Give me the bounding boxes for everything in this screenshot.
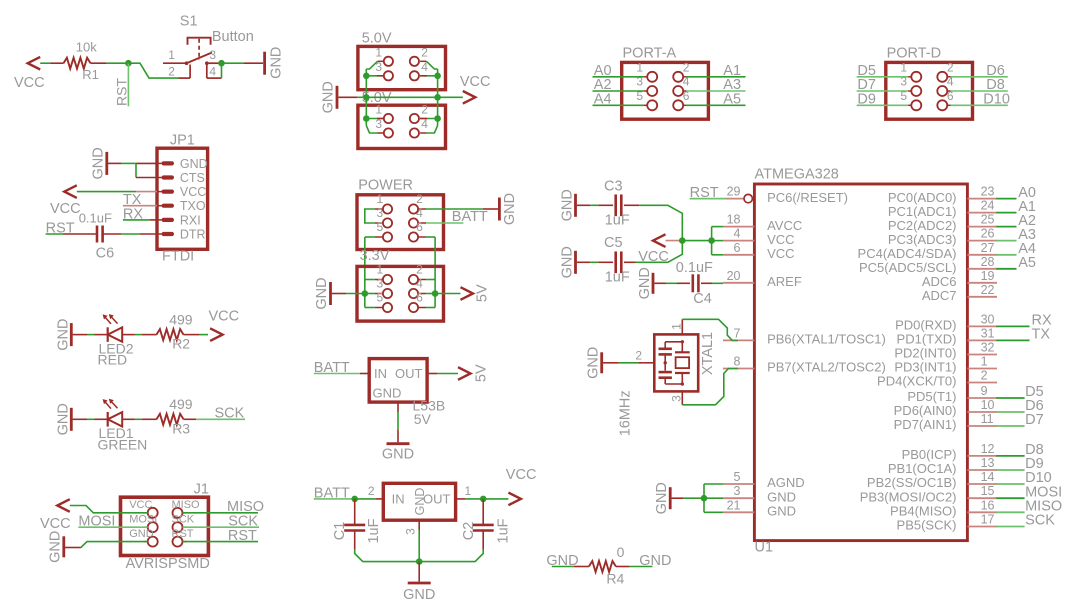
svg-text:7: 7 bbox=[734, 326, 741, 340]
svg-text:PC5(ADC5/SCL): PC5(ADC5/SCL) bbox=[859, 260, 957, 275]
wires lower 5.0V right bbox=[437, 97, 439, 125]
svg-text:30: 30 bbox=[981, 312, 995, 326]
svg-text:2: 2 bbox=[981, 369, 988, 383]
PORT-D pins row 1 bbox=[911, 72, 921, 82]
wire bus to VCC bbox=[438, 96, 463, 98]
svg-text:PB4(MISO): PB4(MISO) bbox=[890, 504, 956, 519]
svg-text:PORT-A: PORT-A bbox=[623, 46, 677, 62]
svg-text:0: 0 bbox=[617, 544, 625, 560]
svg-text:GND: GND bbox=[382, 447, 414, 463]
power VCC arrow (JP1) bbox=[64, 185, 77, 198]
svg-text:ADC7: ADC7 bbox=[922, 288, 957, 303]
wire GND to LED2 bbox=[73, 334, 88, 336]
ground GND (top-left) bbox=[263, 52, 266, 75]
svg-text:D9: D9 bbox=[857, 92, 876, 108]
XTAL crystal element bbox=[681, 342, 683, 353]
svg-text:GND: GND bbox=[321, 81, 337, 113]
header PORT-A outline bbox=[622, 62, 709, 119]
svg-text:PD6(AIN0): PD6(AIN0) bbox=[894, 403, 957, 418]
svg-text:11: 11 bbox=[981, 412, 994, 426]
resistor R4 bbox=[589, 561, 616, 572]
wire GND to J1 bbox=[65, 547, 81, 549]
svg-text:GND: GND bbox=[55, 403, 71, 435]
svg-text:24: 24 bbox=[981, 199, 995, 213]
svg-text:SCK: SCK bbox=[172, 514, 195, 526]
svg-text:32: 32 bbox=[981, 341, 995, 355]
svg-text:5: 5 bbox=[734, 470, 741, 484]
wire OUT to junction bbox=[456, 498, 465, 500]
pin RXI (JP1) bbox=[157, 219, 164, 221]
power VCC arrow (5.0V) bbox=[463, 91, 476, 104]
svg-text:PD3(INT1): PD3(INT1) bbox=[894, 360, 956, 375]
svg-text:VCC: VCC bbox=[50, 201, 81, 217]
wire junction to VCC bbox=[483, 498, 508, 500]
wire C1 to GND node bbox=[355, 549, 420, 562]
ground GND (XTAL) bbox=[600, 352, 603, 373]
wire S1 pin4 up bbox=[221, 65, 223, 79]
svg-text:22: 22 bbox=[981, 283, 995, 297]
wire POWER 1-3 bbox=[365, 209, 375, 223]
svg-text:8: 8 bbox=[734, 355, 741, 369]
svg-text:5: 5 bbox=[377, 220, 384, 234]
power VCC arrow (L0B) bbox=[508, 493, 521, 506]
wire GND bus bbox=[703, 484, 705, 512]
wire C2 to GND node bbox=[419, 549, 483, 562]
wire VCC bus bbox=[711, 227, 713, 255]
svg-text:PC6(/RESET): PC6(/RESET) bbox=[767, 190, 848, 205]
svg-text:PC1(ADC1): PC1(ADC1) bbox=[888, 204, 957, 219]
IC pin 14 PB2(SS/OC1B) bbox=[967, 483, 997, 485]
svg-text:2: 2 bbox=[635, 349, 642, 363]
wire OUT to 5V bbox=[427, 373, 437, 375]
wire MISO (J1) bbox=[183, 512, 259, 514]
svg-text:GND: GND bbox=[129, 528, 154, 540]
svg-text:3: 3 bbox=[209, 48, 216, 62]
svg-text:VCC: VCC bbox=[129, 499, 152, 511]
svg-text:RST: RST bbox=[113, 78, 129, 106]
wire MOSI to J1 bbox=[78, 526, 147, 528]
wire A3 bbox=[686, 90, 745, 92]
wire POWER 6 down bbox=[426, 236, 435, 238]
svg-text:31: 31 bbox=[981, 326, 995, 340]
svg-text:TXO: TXO bbox=[180, 199, 206, 213]
svg-text:CTS: CTS bbox=[180, 171, 205, 185]
IC pin 19 ADC6 bbox=[967, 282, 997, 284]
wire GND to C3 bbox=[577, 204, 590, 206]
svg-text:5V: 5V bbox=[475, 284, 491, 302]
wire junction to S1 pin2 bbox=[128, 63, 178, 78]
regulator U$2 L0B outline bbox=[383, 483, 455, 520]
IC pin 3 GND bbox=[723, 497, 754, 499]
IC pin 11 PD7(AIN1) bbox=[967, 425, 997, 427]
svg-text:1: 1 bbox=[636, 61, 643, 75]
wire POWER 2 to GND bbox=[426, 208, 483, 210]
wire VCC arrow to node bbox=[666, 240, 683, 242]
svg-text:1: 1 bbox=[377, 263, 384, 277]
ground GND (3.3V) bbox=[329, 282, 332, 305]
IC pin 1 PD3(INT1) bbox=[967, 368, 997, 370]
svg-text:15: 15 bbox=[981, 484, 995, 498]
wire TX to TXO bbox=[123, 205, 157, 207]
ground GND (C4) bbox=[652, 273, 655, 294]
wire RX to RXI bbox=[123, 219, 150, 221]
svg-text:1: 1 bbox=[377, 192, 384, 206]
svg-text:VCC: VCC bbox=[209, 308, 240, 324]
PORT-D pins row 3 bbox=[911, 100, 921, 110]
switch S1 pin4 lead bbox=[206, 65, 208, 79]
svg-text:GND: GND bbox=[654, 482, 670, 514]
svg-text:14: 14 bbox=[981, 470, 995, 484]
IC U1 ATMEGA328 outline bbox=[754, 184, 967, 541]
svg-text:IN: IN bbox=[374, 366, 387, 381]
J1 pins VCC/MISO bbox=[148, 508, 158, 518]
wire A1 bbox=[686, 76, 745, 78]
svg-text:3.3V: 3.3V bbox=[360, 248, 390, 264]
IC pin 12 PB0(ICP) bbox=[967, 455, 997, 457]
svg-text:C2: C2 bbox=[461, 522, 477, 541]
junction VCC node bbox=[679, 237, 686, 244]
J1 pins GND/RST bbox=[148, 537, 158, 547]
IC pin 20 AREF bbox=[723, 282, 754, 284]
wire RST to C6 bbox=[46, 233, 63, 235]
svg-text:1: 1 bbox=[375, 103, 382, 117]
IC pin 7 PB6(XTAL1/TOSC1) bbox=[723, 339, 754, 341]
power 5V arrow (L53B) bbox=[458, 367, 471, 380]
wire 3.3V right bus bbox=[434, 280, 436, 308]
crystal XTAL1 outline bbox=[654, 334, 698, 391]
svg-text:R2: R2 bbox=[172, 336, 190, 352]
wire D10 bbox=[951, 104, 1008, 106]
wire R1 to junction bbox=[107, 62, 129, 64]
svg-text:D10: D10 bbox=[983, 92, 1010, 108]
wire POWER 5 down bbox=[365, 236, 375, 238]
IC pin 6 VCC bbox=[723, 254, 754, 256]
svg-text:PB7(XTAL2/TOSC2): PB7(XTAL2/TOSC2) bbox=[767, 360, 886, 375]
pin CTS (JP1) bbox=[157, 177, 164, 179]
wire POWER 4 BATT bbox=[426, 222, 463, 224]
ground GND (LED1) bbox=[70, 408, 73, 431]
capacitor C1 bbox=[354, 499, 356, 525]
svg-text:GND: GND bbox=[767, 489, 796, 504]
svg-text:FTDI: FTDI bbox=[162, 248, 194, 264]
svg-text:D7: D7 bbox=[1025, 412, 1044, 428]
svg-text:6: 6 bbox=[416, 220, 423, 234]
svg-text:5V: 5V bbox=[474, 364, 490, 382]
wire A5 bbox=[686, 104, 745, 106]
IC pin 8 PB7(XTAL2/TOSC2) bbox=[723, 368, 754, 370]
IC pin 27 PC4(ADC4/SDA) bbox=[967, 254, 997, 256]
svg-text:1: 1 bbox=[168, 48, 175, 62]
svg-text:GND: GND bbox=[47, 531, 63, 563]
header JP 5.0V (lower) outline+pins bbox=[358, 105, 446, 148]
svg-text:0.1uF: 0.1uF bbox=[79, 211, 112, 226]
wire junction to IN bbox=[355, 498, 376, 500]
svg-text:ADC6: ADC6 bbox=[922, 274, 957, 289]
IC pin 17 PB5(SCK) bbox=[967, 526, 997, 528]
svg-text:RXI: RXI bbox=[180, 213, 201, 227]
IC pin 10 PD6(AIN0) bbox=[967, 411, 997, 413]
svg-text:VCC: VCC bbox=[180, 185, 206, 199]
junction VCC bus bbox=[708, 237, 715, 244]
switch S1 contact pin3 bbox=[205, 61, 209, 65]
junction S1 pin3 bbox=[218, 60, 225, 67]
svg-text:2: 2 bbox=[416, 192, 423, 206]
junction RST node bbox=[125, 60, 132, 67]
svg-text:PB1(OC1A): PB1(OC1A) bbox=[888, 461, 957, 476]
svg-text:GND: GND bbox=[637, 267, 653, 299]
wire BATT to IN bbox=[314, 373, 360, 375]
svg-text:SCK: SCK bbox=[215, 406, 245, 422]
svg-text:OUT: OUT bbox=[395, 366, 423, 381]
wires upper 5.0V right bbox=[420, 60, 426, 62]
svg-text:GND: GND bbox=[559, 246, 575, 278]
capacitor C6 bbox=[96, 226, 99, 243]
wires upper 5.0V left bbox=[378, 60, 384, 62]
power VCC arrow (LED2) bbox=[210, 328, 223, 341]
IC pin 22 ADC7 bbox=[967, 296, 997, 298]
IC pin 15 PB3(MOSI/OC2) bbox=[967, 497, 997, 499]
IC pin 31 PD1(TXD) bbox=[967, 339, 997, 341]
svg-text:U1: U1 bbox=[755, 540, 774, 556]
junction lower-right bbox=[434, 115, 441, 122]
svg-text:21: 21 bbox=[727, 498, 741, 512]
resistor R2 bbox=[157, 329, 184, 340]
svg-text:R1: R1 bbox=[82, 67, 99, 82]
wire SCK (J1) bbox=[183, 526, 260, 528]
IC pin 16 PB4(MISO) bbox=[967, 511, 997, 513]
svg-text:2: 2 bbox=[416, 263, 423, 277]
capacitor C5 bbox=[614, 251, 617, 273]
svg-text:Button: Button bbox=[212, 29, 254, 45]
svg-text:12: 12 bbox=[981, 442, 995, 456]
svg-text:23: 23 bbox=[981, 185, 995, 199]
svg-text:PD0(RXD): PD0(RXD) bbox=[895, 318, 956, 333]
svg-text:16: 16 bbox=[981, 498, 995, 512]
svg-text:C6: C6 bbox=[96, 246, 115, 262]
svg-text:OUT: OUT bbox=[423, 492, 451, 507]
PORT-A pins row 1 bbox=[647, 72, 657, 82]
wire GND to C5 bbox=[577, 261, 590, 263]
regulator U$1 L53B outline bbox=[369, 359, 427, 403]
pin VCC (JP1) bbox=[157, 191, 164, 193]
wire GND pin (L53B) bbox=[397, 402, 399, 412]
svg-text:BATT: BATT bbox=[452, 209, 488, 225]
ground GND (IC) bbox=[669, 487, 672, 509]
wire C3 to VCC node bbox=[624, 204, 639, 206]
wire R3 to SCK bbox=[184, 418, 197, 420]
svg-text:C5: C5 bbox=[604, 235, 623, 251]
wire LED2 to R bbox=[122, 334, 135, 336]
IC pin 13 PB1(OC1A) bbox=[967, 469, 997, 471]
svg-text:R3: R3 bbox=[172, 420, 190, 436]
svg-text:GND: GND bbox=[502, 193, 518, 225]
svg-text:VCC: VCC bbox=[506, 467, 537, 483]
ground GND (C5) bbox=[574, 251, 577, 274]
svg-text:AVCC: AVCC bbox=[767, 218, 802, 233]
power VCC arrow (AVCC) bbox=[653, 234, 666, 247]
svg-text:PD1(TXD): PD1(TXD) bbox=[897, 332, 957, 347]
ground GND (5.0V) bbox=[336, 86, 339, 109]
svg-text:MOSI: MOSI bbox=[129, 514, 157, 526]
svg-text:1: 1 bbox=[375, 45, 382, 59]
wire BATT to junction bbox=[314, 498, 355, 500]
svg-text:A5: A5 bbox=[723, 92, 741, 108]
svg-text:GND: GND bbox=[269, 47, 285, 79]
svg-text:17: 17 bbox=[981, 513, 995, 527]
XTAL internal caps bbox=[664, 342, 666, 350]
ground GND (L53B) bbox=[387, 442, 410, 445]
header POWER outline+pins bbox=[357, 195, 444, 250]
svg-text:A5: A5 bbox=[1018, 255, 1036, 271]
svg-text:PB3(MOSI/OC2): PB3(MOSI/OC2) bbox=[860, 489, 957, 504]
power VCC arrow (J1) bbox=[57, 499, 70, 512]
svg-text:1uF: 1uF bbox=[366, 518, 382, 543]
svg-text:20: 20 bbox=[727, 269, 741, 283]
svg-text:3: 3 bbox=[734, 484, 741, 498]
svg-text:XTAL1: XTAL1 bbox=[700, 332, 716, 375]
header PORT-D outline bbox=[886, 62, 973, 119]
svg-text:6: 6 bbox=[734, 241, 741, 255]
svg-text:POWER: POWER bbox=[358, 178, 413, 194]
svg-text:5V: 5V bbox=[414, 411, 432, 427]
capacitor C2 bbox=[482, 499, 484, 525]
svg-text:PB0(ICP): PB0(ICP) bbox=[902, 447, 957, 462]
wire XTAL pin1 to PB6 bbox=[682, 319, 738, 340]
wire D7 bbox=[857, 90, 908, 92]
svg-text:GND: GND bbox=[767, 504, 796, 519]
capacitor C3 bbox=[614, 194, 617, 216]
svg-text:PC3(ADC3): PC3(ADC3) bbox=[888, 232, 957, 247]
wire 3.3V left bus bbox=[364, 280, 366, 308]
ground GND (POWER) bbox=[498, 198, 501, 221]
connector J1 outline bbox=[121, 497, 209, 555]
IC pin 4 VCC bbox=[723, 240, 754, 242]
svg-text:TX: TX bbox=[1032, 327, 1051, 343]
svg-text:4: 4 bbox=[734, 227, 741, 241]
IC pin 26 PC3(ADC3) bbox=[967, 240, 997, 242]
svg-text:GND: GND bbox=[373, 386, 402, 401]
wire A0 bbox=[593, 76, 645, 78]
wire RST (J1) bbox=[183, 541, 259, 543]
svg-text:AGND: AGND bbox=[767, 475, 805, 490]
junction GND node (L0B) bbox=[416, 558, 423, 565]
resistor R1 bbox=[64, 58, 91, 69]
svg-text:GND: GND bbox=[559, 189, 575, 221]
svg-text:MISO: MISO bbox=[172, 499, 201, 511]
junction lower-left bbox=[363, 115, 370, 122]
wire VCC to JP1 bbox=[77, 191, 136, 193]
svg-text:VCC: VCC bbox=[460, 74, 491, 90]
svg-text:10: 10 bbox=[981, 398, 995, 412]
junction bus-left bbox=[363, 94, 370, 101]
svg-text:2: 2 bbox=[421, 45, 428, 59]
svg-text:ATMEGA328: ATMEGA328 bbox=[755, 167, 839, 183]
svg-text:VCC: VCC bbox=[14, 75, 45, 91]
svg-text:29: 29 bbox=[727, 185, 741, 199]
IC pin 23 PC0(ADC0) bbox=[967, 198, 997, 200]
svg-text:0.1uF: 0.1uF bbox=[676, 260, 713, 276]
svg-text:PC4(ADC4/SDA): PC4(ADC4/SDA) bbox=[858, 246, 957, 261]
svg-text:9: 9 bbox=[981, 384, 988, 398]
svg-text:1uF: 1uF bbox=[605, 213, 630, 229]
XTAL pin2 stub bbox=[643, 362, 654, 364]
connector JP1 outline bbox=[157, 148, 208, 249]
wire RST vertical bbox=[127, 63, 129, 106]
svg-text:VCC: VCC bbox=[767, 246, 794, 261]
svg-text:SCK: SCK bbox=[1025, 513, 1055, 529]
svg-text:RST: RST bbox=[228, 528, 257, 544]
ground GND (L0B) bbox=[408, 582, 431, 585]
PORT-A pins row 2 bbox=[647, 86, 657, 96]
junction GND bus bbox=[701, 495, 708, 502]
switch S1 actuator bbox=[188, 38, 211, 45]
svg-text:499: 499 bbox=[169, 311, 193, 327]
svg-text:PD4(XCK/T0): PD4(XCK/T0) bbox=[877, 374, 956, 389]
wire S1 to GND bbox=[222, 62, 245, 64]
pin TXO (JP1) bbox=[157, 205, 164, 207]
header 3.3V outline+pins bbox=[357, 266, 444, 321]
svg-text:26: 26 bbox=[981, 227, 995, 241]
svg-text:3: 3 bbox=[404, 528, 418, 535]
svg-text:5: 5 bbox=[377, 291, 384, 305]
wire bus bbox=[366, 96, 437, 98]
wire C6 to DTR bbox=[104, 233, 122, 235]
wire D6 bbox=[951, 76, 1008, 78]
LED LED2 bbox=[107, 327, 109, 342]
PORT-A pins row 3 bbox=[647, 100, 657, 110]
svg-text:VCC: VCC bbox=[638, 249, 669, 265]
wire R4 to GND bbox=[616, 566, 630, 568]
junction upper-left bbox=[363, 73, 370, 80]
junction 3.3V left bbox=[362, 290, 369, 297]
svg-text:PB6(XTAL1/TOSC1): PB6(XTAL1/TOSC1) bbox=[767, 332, 886, 347]
svg-text:S1: S1 bbox=[180, 13, 198, 29]
svg-text:GREEN: GREEN bbox=[98, 436, 148, 452]
wire GND to C4 bbox=[654, 282, 666, 284]
power rail VCC arrow (top-left) bbox=[28, 57, 41, 70]
IC pin 32 PD2(INT0) bbox=[967, 354, 997, 356]
IC pin 21 GND bbox=[723, 511, 754, 513]
svg-text:3: 3 bbox=[377, 277, 384, 291]
svg-text:1uF: 1uF bbox=[496, 518, 512, 543]
svg-text:1: 1 bbox=[900, 61, 907, 75]
svg-text:1: 1 bbox=[465, 484, 472, 498]
wire GND to bus (IC) bbox=[672, 497, 683, 499]
svg-text:PB5(SCK): PB5(SCK) bbox=[897, 518, 957, 533]
svg-text:4: 4 bbox=[416, 277, 423, 291]
svg-text:DTR: DTR bbox=[180, 227, 206, 241]
wire node to bus bbox=[682, 240, 711, 242]
svg-text:2: 2 bbox=[368, 484, 375, 498]
svg-text:RST: RST bbox=[172, 528, 194, 540]
junction upper-right bbox=[434, 73, 441, 80]
J1 pins MOSI/SCK bbox=[148, 522, 158, 532]
svg-text:GND: GND bbox=[55, 318, 71, 350]
svg-text:PC0(ADC0): PC0(ADC0) bbox=[888, 190, 957, 205]
svg-text:A4: A4 bbox=[594, 92, 612, 108]
svg-text:2: 2 bbox=[947, 61, 954, 75]
svg-text:AVRISPSMD: AVRISPSMD bbox=[126, 556, 210, 572]
wire D5 bbox=[857, 76, 908, 78]
svg-text:2: 2 bbox=[683, 61, 690, 75]
header JP 5.0V (upper) outline+pins bbox=[358, 46, 446, 89]
wires lower 5.0V left bbox=[365, 97, 367, 125]
wire GND to XTAL pin2 bbox=[603, 362, 619, 364]
wire GND to JP1 bbox=[108, 162, 122, 164]
svg-text:4: 4 bbox=[416, 206, 423, 220]
IC pin 5 AGND bbox=[723, 483, 754, 485]
svg-text:1: 1 bbox=[981, 355, 988, 369]
